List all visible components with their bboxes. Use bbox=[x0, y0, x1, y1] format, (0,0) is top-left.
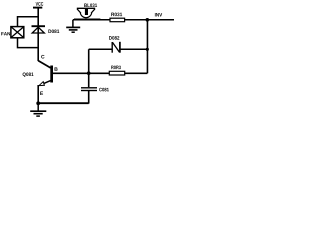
transistor Q081 collector diagonal bbox=[38, 61, 50, 68]
capacitor C081 top lead bbox=[88, 73, 90, 87]
wire: top rail right segment to INV bbox=[125, 19, 174, 21]
wire: D082 branch vertical from base wire bbox=[88, 49, 90, 73]
wire: fan bottom branch bbox=[18, 38, 39, 48]
label D082 bbox=[109, 36, 119, 40]
wire: R0R3 right to corner bbox=[125, 72, 148, 74]
wire: emitter down to bottom rail bbox=[37, 85, 39, 104]
pin label C bbox=[41, 55, 44, 59]
label R031 bbox=[111, 13, 122, 17]
label R0R3 bbox=[111, 66, 121, 70]
pin label B bbox=[55, 67, 58, 70]
junction dot riser top bbox=[146, 18, 150, 22]
fan FAN box bbox=[11, 27, 24, 38]
transistor Q081 base bar bbox=[50, 66, 53, 83]
diode D081 triangle bbox=[32, 27, 44, 33]
label BL031 bbox=[84, 4, 97, 8]
wire: right vertical riser bbox=[146, 20, 148, 74]
pin label E bbox=[40, 92, 43, 95]
junction dot riser / D082 bbox=[146, 48, 149, 51]
transistor Q081 emitter diagonal bbox=[42, 81, 51, 85]
wire: D082 left wire bbox=[89, 48, 113, 50]
ground (emitter) bbox=[30, 104, 46, 117]
wire: base wire from Q081 to R0R3 bbox=[53, 72, 110, 74]
label Q081 bbox=[23, 73, 34, 77]
ground (BL031) bbox=[66, 27, 80, 32]
resistor R031 bbox=[110, 18, 125, 22]
wire: D082 right wire bbox=[120, 48, 147, 50]
junction dot base/capacitor/D082 bbox=[87, 71, 91, 75]
wire: main vertical from VCC to collector diagonal bbox=[37, 8, 39, 61]
transistor Q081 emitter arrowhead (open) bbox=[39, 82, 45, 86]
diode D082 bbox=[112, 42, 120, 53]
buzzer BL031 bbox=[74, 8, 100, 19]
wire: BL031 to ground bbox=[72, 20, 74, 28]
wire: bottom rail to capacitor bbox=[38, 102, 88, 104]
capacitor C081 plates bbox=[81, 88, 97, 91]
junction dot emitter/ground/rail bbox=[36, 101, 40, 105]
wire: top branch to fan bbox=[18, 17, 39, 27]
net label INV bbox=[155, 13, 162, 16]
VCC power bar bbox=[33, 7, 42, 9]
fan blades X bbox=[11, 27, 23, 37]
net label VCC bbox=[36, 2, 44, 6]
wire: top rail left segment bbox=[73, 19, 110, 21]
label FAN bbox=[1, 32, 10, 35]
label D081 bbox=[48, 30, 59, 34]
resistor R0R3 bbox=[109, 71, 124, 75]
diode D081 cathode bar bbox=[32, 25, 46, 27]
label C081 bbox=[99, 88, 109, 92]
capacitor C081 bottom lead bbox=[88, 91, 90, 104]
